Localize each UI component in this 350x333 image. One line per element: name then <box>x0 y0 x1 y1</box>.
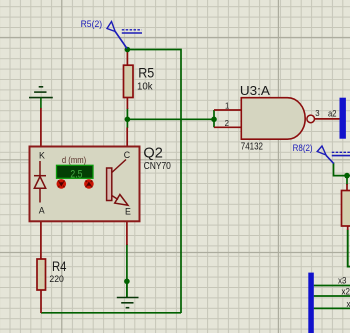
svg-text:R4: R4 <box>52 258 67 274</box>
pin: R5 top <box>126 50 128 66</box>
optical sensor Q2 CNY70 body <box>30 147 140 222</box>
output bubble <box>307 115 315 123</box>
wire: CNY70 E pin down to ground <box>126 244 128 297</box>
svg-text:74132: 74132 <box>241 141 263 152</box>
svg-text:3: 3 <box>315 109 319 118</box>
wire: gate input bracket vertical <box>213 110 215 127</box>
wire: bus tap x1 <box>314 307 350 309</box>
svg-text:220: 220 <box>49 274 64 285</box>
wire: R5 bottom junction to gate inputs <box>127 118 214 120</box>
wire: R8 resistor bottom down and right <box>348 230 350 267</box>
pin: R8 top <box>346 184 348 191</box>
svg-text:K: K <box>39 151 45 161</box>
junction node: E/ground <box>124 279 130 285</box>
svg-text:R5: R5 <box>138 65 154 81</box>
svg-text:U3:A: U3:A <box>240 83 270 98</box>
wire: R5 bottom short verticals <box>126 108 128 128</box>
wire: junction down to R8 resistor <box>346 176 348 185</box>
svg-text:R8(2): R8(2) <box>293 143 313 153</box>
pin: R4 bottom <box>40 290 42 314</box>
display: green readout 2.5 <box>57 165 94 178</box>
svg-text:a2: a2 <box>328 109 337 119</box>
svg-text:x3: x3 <box>338 276 347 286</box>
resistor R8 (partial at right edge) <box>342 191 350 227</box>
pin: R5 bottom <box>126 97 128 109</box>
voltage probe R5(2) <box>81 19 142 48</box>
svg-text:CNY70: CNY70 <box>144 161 172 172</box>
phototransistor inside CNY70 <box>107 160 128 206</box>
svg-text:C: C <box>124 150 131 160</box>
wire: bus tap x3 <box>314 285 350 287</box>
svg-text:2: 2 <box>225 119 229 128</box>
knob: increase (up arrow) <box>84 179 94 189</box>
svg-text:x2: x2 <box>342 287 350 297</box>
junction node: R8 wire <box>344 173 350 179</box>
junction node: gate inputs <box>211 117 217 123</box>
ground at bottom of E wire <box>117 281 139 307</box>
svg-text:d (mm): d (mm) <box>62 155 86 165</box>
wire: bottom horizontal R4 to vertical <box>41 312 181 314</box>
wire: bus tap x2 <box>314 295 350 297</box>
diode (LED) inside CNY70 <box>34 161 46 203</box>
knob: decrease (down arrow) <box>57 179 67 189</box>
wire: R5 top junction to right corner <box>127 50 181 314</box>
resistor R4 <box>37 259 46 290</box>
pin: CNY70 A (to R4) <box>40 221 42 260</box>
svg-text:R5(2): R5(2) <box>81 19 103 29</box>
pin: R8 bottom <box>347 226 349 230</box>
pin 2 <box>214 126 241 128</box>
junction node: R5 bottom <box>125 117 131 123</box>
pin 1 <box>214 109 241 111</box>
pin: CNY70 C (to R5 bottom) <box>126 128 128 148</box>
svg-text:x1: x1 <box>347 299 350 309</box>
svg-text:E: E <box>125 207 131 217</box>
resistor R5 <box>124 65 134 97</box>
bus at bottom right <box>308 273 314 333</box>
wire: probe R8 tap to junction <box>334 163 350 176</box>
pin 3 (output) <box>315 118 340 120</box>
junction node: R5 top <box>125 47 131 53</box>
bus terminal right of gate <box>340 98 346 139</box>
voltage probe R8(2) <box>293 143 350 164</box>
svg-text:Q2: Q2 <box>143 146 163 162</box>
svg-text:2.5: 2.5 <box>70 168 82 180</box>
svg-text:A: A <box>39 205 45 215</box>
pin: CNY70 E <box>126 221 128 245</box>
svg-text:1: 1 <box>225 102 229 111</box>
svg-text:10k: 10k <box>137 82 153 93</box>
ground (inverted) above CNY70 K pin <box>29 87 53 109</box>
pin: CNY70 K (from ground) <box>40 108 42 147</box>
